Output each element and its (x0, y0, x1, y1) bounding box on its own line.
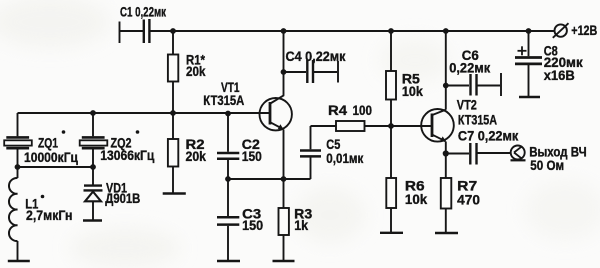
capacitor C3 (217, 179, 263, 261)
transistor VT2 (421, 98, 497, 143)
node base/R1R2 (170, 110, 176, 116)
svg-text:150: 150 (242, 218, 263, 233)
svg-text:Д901В: Д901В (105, 191, 140, 206)
node top rail / R1 junction (170, 28, 176, 34)
crystal ZQ1 (4, 113, 78, 167)
capacitor C2 (217, 114, 262, 180)
resistor R7 (441, 154, 480, 233)
wire VT1 collector (283, 31, 285, 96)
svg-text:1k: 1k (294, 218, 309, 233)
svg-text:+12В: +12В (571, 23, 597, 38)
svg-text:50 Ом: 50 Ом (530, 158, 564, 173)
crystal ZQ2 (80, 113, 155, 167)
svg-text:C5: C5 (326, 137, 340, 152)
resistor R3 (279, 179, 313, 261)
node VT2 collector rail (443, 28, 449, 34)
svg-text:10000кГц: 10000кГц (24, 150, 79, 165)
resistor R6 (386, 126, 427, 233)
capacitor C8 electrolytic (515, 28, 583, 96)
svg-text:C7 0,22мк: C7 0,22мк (458, 128, 519, 143)
node R4/R5/R6 (388, 123, 394, 129)
svg-text:470: 470 (457, 193, 480, 208)
ground R7 (435, 232, 458, 234)
svg-text:0,01мк: 0,01мк (326, 151, 363, 166)
svg-text:20k: 20k (186, 64, 206, 79)
node C2C3 (225, 176, 231, 182)
ground R3 (273, 260, 295, 262)
wire top +12V rail (150, 30, 555, 32)
svg-text:ZQ1: ZQ1 (38, 136, 58, 151)
svg-text:100: 100 (353, 103, 373, 118)
resistor R4 (311, 103, 432, 131)
wire VT2 emitter (445, 142, 447, 154)
svg-text:150: 150 (242, 149, 262, 164)
wire VT1 base line (18, 112, 271, 114)
node collector rail (281, 28, 287, 34)
capacitor C5 (300, 126, 364, 179)
capacitor C1 (120, 5, 167, 44)
inductor L1 (9, 167, 73, 261)
capacitor C6 (443, 48, 501, 96)
resistor R2 (168, 113, 207, 193)
wire VT1 emitter (283, 130, 285, 180)
svg-text:0,22мк: 0,22мк (449, 60, 490, 75)
node ZQ1/L1 (15, 164, 21, 170)
node VT2 emitter (443, 150, 449, 156)
ground C8 (519, 96, 540, 98)
svg-text:10k: 10k (402, 84, 424, 99)
node emitter/R3 (281, 176, 287, 182)
node base/ZQ2 (90, 110, 96, 116)
resistor R1 (168, 31, 206, 113)
ground C3 (217, 260, 240, 262)
svg-text:C1 0,22мк: C1 0,22мк (120, 5, 166, 20)
capacitor C4 (281, 49, 346, 83)
transistor VT1 (203, 80, 292, 130)
wire VT2 collector (445, 31, 447, 110)
svg-text:КТ315А: КТ315А (458, 112, 497, 127)
ground VD1 (83, 219, 102, 221)
diode VD1 (84, 167, 141, 220)
ground R6 (380, 232, 403, 234)
svg-text:VT2: VT2 (457, 98, 477, 113)
svg-text:x16В: x16В (544, 68, 575, 83)
output jack terminal (511, 145, 587, 174)
svg-text:13066кГц: 13066кГц (100, 148, 155, 163)
node base/C2 (225, 111, 231, 117)
ground R2 (163, 192, 186, 194)
svg-text:R7: R7 (457, 179, 477, 194)
terminal +12V (553, 23, 598, 38)
node ZQ2/VD1 (90, 164, 96, 170)
resistor R5 (386, 28, 423, 126)
svg-text:20k: 20k (186, 149, 207, 164)
svg-text:КТ315А: КТ315А (203, 93, 244, 108)
capacitor C7 (446, 128, 519, 164)
svg-text:2,7мкГн: 2,7мкГн (26, 208, 73, 223)
ground L1 (8, 260, 30, 262)
svg-text:C4 0,22мк: C4 0,22мк (286, 49, 346, 64)
svg-text:R4: R4 (328, 103, 348, 118)
svg-text:10k: 10k (405, 192, 428, 207)
wire ZQ bottom node line (18, 166, 94, 168)
wire emitter node line (228, 178, 311, 180)
